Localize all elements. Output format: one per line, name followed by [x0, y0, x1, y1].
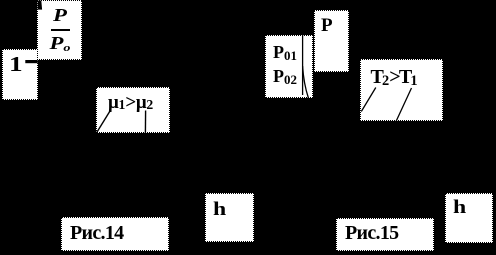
label box P01 / P02 (right figure)	[265, 35, 313, 98]
text T2>T1	[371, 67, 418, 87]
curve T2 fragment in T box	[361, 88, 376, 112]
text P01	[273, 43, 297, 61]
label box "1"	[2, 49, 38, 100]
text P	[321, 16, 333, 35]
text h left	[213, 200, 226, 219]
label box P (right figure y-axis)	[314, 10, 349, 72]
label box mu1>mu2	[96, 87, 170, 133]
text h right	[453, 198, 466, 217]
text P02	[273, 67, 297, 85]
curve T1 fragment in T box	[396, 88, 412, 122]
caption box Fig.14	[61, 217, 169, 251]
text mu1>mu2	[108, 93, 153, 112]
caption box Fig.15	[336, 218, 434, 251]
text Ris.14	[70, 223, 123, 243]
fraction P over Po	[38, 0, 82, 52]
label box h (left figure x-axis)	[205, 193, 254, 242]
label box T2>T1	[360, 59, 443, 121]
curve mu1 fragment (diagonal in mu box)	[96, 111, 110, 133]
tick mark at value 1 on left y-axis	[25, 60, 37, 63]
text Ris.15	[345, 223, 398, 243]
curve mu2 fragment (vertical in mu box)	[144, 111, 146, 134]
text 1	[9, 54, 23, 75]
y-axis arrowhead (left figure, pokes into P/P0 box)	[38, 1, 43, 10]
curve P02 start bending right	[303, 66, 309, 98]
label box h (right figure x-axis)	[445, 193, 493, 243]
label box P/P0 (left figure y-axis label)	[37, 0, 82, 60]
right figure y-axis fragment in P01/P02 box	[302, 35, 304, 95]
